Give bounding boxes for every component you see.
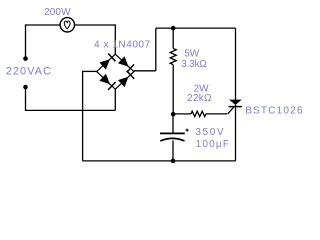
wire bottom vertex riser [114, 89, 116, 110]
svg-text:100µF: 100µF [196, 139, 231, 150]
wire thyristor anode drop [235, 28, 237, 100]
wire bridge minus to left [83, 70, 97, 72]
node plus rail junction [171, 26, 176, 31]
capacitor C1 top plate [160, 133, 185, 135]
svg-text:3.3kΩ: 3.3kΩ [181, 59, 207, 70]
wire top right rail [156, 27, 236, 29]
svg-text:350V: 350V [195, 127, 225, 138]
wire 5W resistor top lead [172, 28, 174, 48]
wire left column to top AC terminal [25, 24, 27, 58]
diode D1 bridge upper-left [99, 54, 115, 70]
wire 22k right lead [206, 113, 228, 115]
resistor 5W 3.3k zigzag [170, 49, 176, 65]
wire capacitor top lead [172, 114, 174, 132]
wire lamp rail right [75, 24, 116, 26]
svg-text:22kΩ: 22kΩ [187, 93, 212, 104]
diode D2 bridge upper-right [118, 56, 134, 72]
wire top vertex drop [114, 24, 116, 54]
wire right riser [155, 28, 157, 71]
capacitor plus sign [186, 129, 189, 132]
svg-text:220VAC: 220VAC [6, 66, 52, 78]
wire capacitor bottom lead [172, 140, 174, 161]
wire bottom rail [83, 160, 236, 162]
diode D4 bridge lower-right [118, 71, 134, 87]
wire 5W resistor bottom lead [172, 65, 174, 115]
svg-text:BSTC1026: BSTC1026 [245, 105, 304, 116]
wire lamp rail left [26, 24, 61, 26]
node top AC terminal [23, 56, 28, 61]
lamp LP1 circle [60, 18, 74, 32]
lamp filament [64, 21, 70, 29]
wire left vertical long [82, 71, 84, 161]
node cap ground junction [171, 159, 176, 164]
capacitor C1 curved plate [160, 138, 184, 141]
resistor 2W 22k zigzag [191, 111, 206, 116]
wire bottom AC horizontal [25, 109, 115, 111]
thyristor cathode bar [229, 106, 242, 108]
svg-text:200W: 200W [44, 7, 71, 18]
wire gate diagonal [228, 107, 234, 114]
thyristor BSTC1026 triangle [229, 100, 242, 105]
svg-text:5W: 5W [184, 48, 200, 59]
svg-text:4 x 1N4007: 4 x 1N4007 [94, 40, 151, 51]
wire bridge plus to right [134, 70, 156, 72]
diode D3 bridge lower-left [99, 74, 115, 90]
node RC junction [171, 112, 176, 117]
bridge diamond outline [97, 54, 134, 89]
wire 22k left lead [173, 113, 191, 115]
node bottom AC terminal [23, 85, 28, 90]
wire left column from bottom AC terminal [25, 87, 27, 110]
wire thyristor cathode to bottom rail [235, 105, 237, 161]
